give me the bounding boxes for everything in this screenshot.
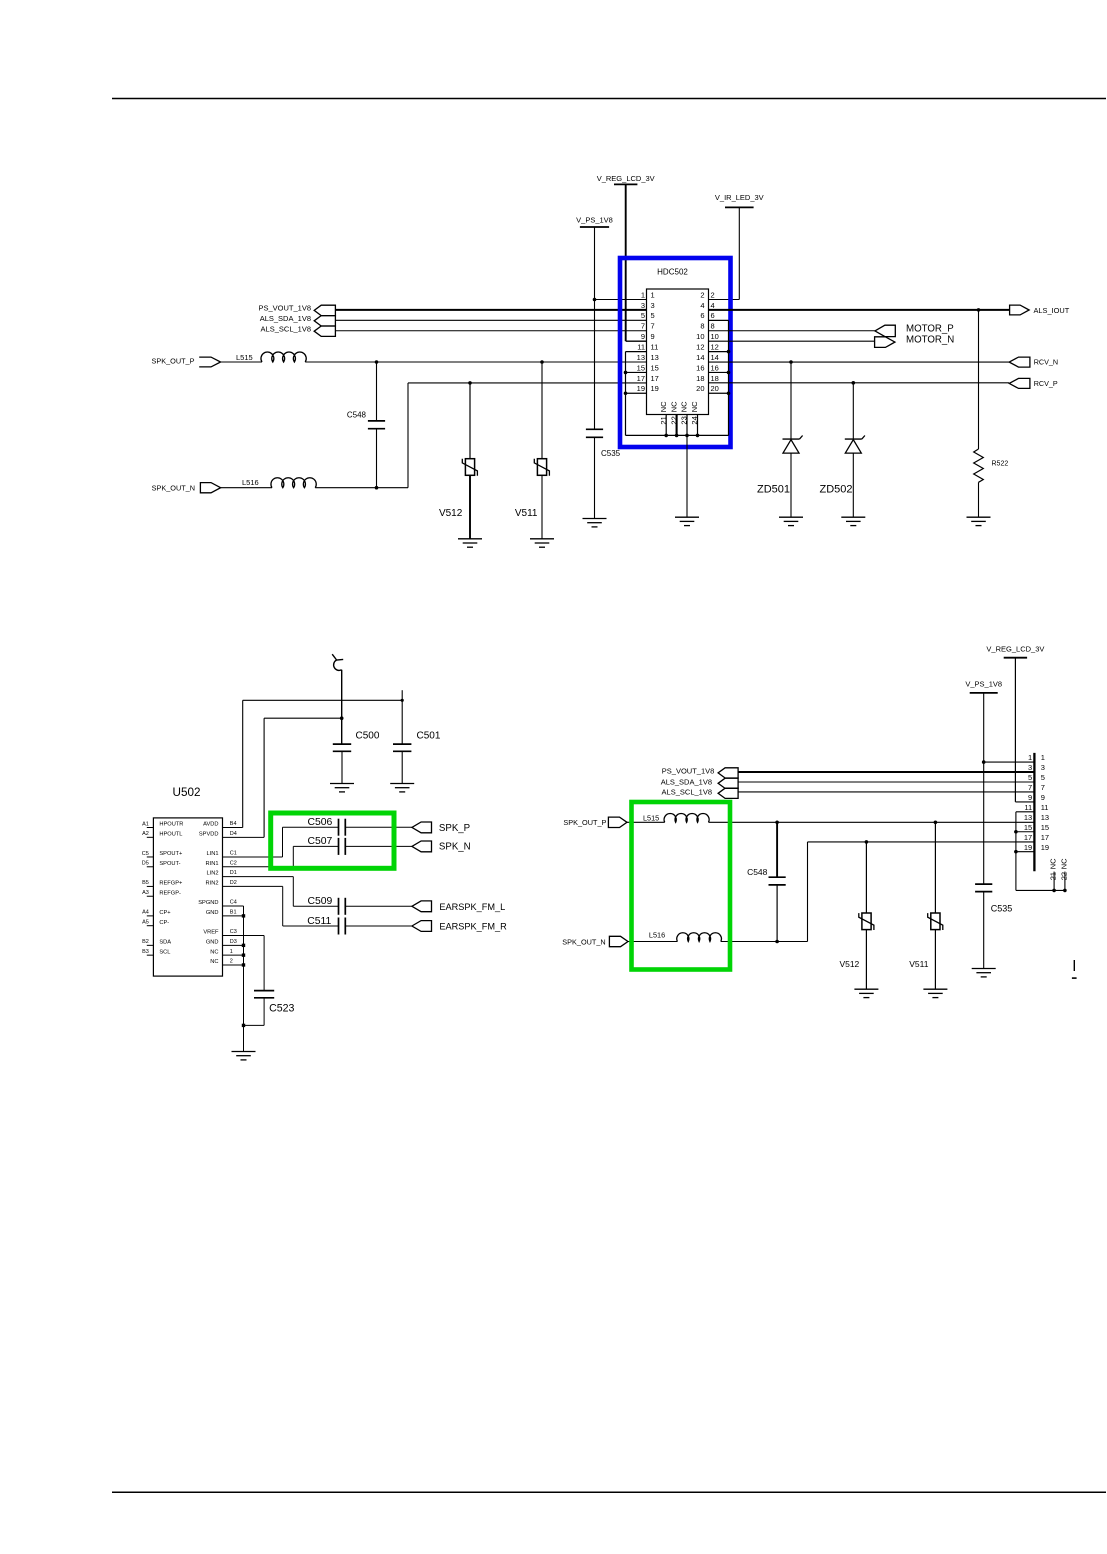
svg-text:4: 4: [700, 301, 704, 310]
svg-text:8: 8: [700, 322, 704, 331]
svg-text:C548: C548: [347, 410, 367, 419]
svg-text:1: 1: [1028, 753, 1032, 762]
svg-text:SPK_P: SPK_P: [439, 823, 470, 834]
svg-text:B1: B1: [230, 909, 237, 915]
svg-text:5: 5: [1041, 773, 1045, 782]
svg-text:18: 18: [696, 374, 704, 383]
svg-text:REFGP+: REFGP+: [159, 881, 183, 887]
svg-text:13: 13: [1041, 813, 1049, 822]
svg-text:D3: D3: [230, 939, 237, 945]
svg-text:1: 1: [641, 290, 645, 299]
svg-text:A1: A1: [142, 821, 149, 827]
svg-text:9: 9: [641, 332, 645, 341]
svg-text:7: 7: [651, 322, 655, 331]
svg-text:ZD502: ZD502: [819, 484, 852, 496]
svg-text:L515: L515: [236, 353, 253, 362]
svg-text:ALS_SCL_1V8: ALS_SCL_1V8: [662, 787, 712, 796]
svg-text:SPGND: SPGND: [198, 900, 218, 906]
svg-text:V_REG_LCD_3V: V_REG_LCD_3V: [986, 644, 1044, 653]
svg-text:11: 11: [651, 343, 659, 352]
svg-text:NC: NC: [210, 949, 218, 955]
svg-text:NC: NC: [1059, 858, 1068, 869]
svg-text:SPOUT-: SPOUT-: [159, 861, 180, 867]
svg-text:9: 9: [651, 332, 655, 341]
svg-text:10: 10: [711, 332, 719, 341]
svg-text:16: 16: [711, 363, 719, 372]
svg-text:NC: NC: [1049, 858, 1058, 869]
svg-text:B4: B4: [230, 821, 237, 827]
svg-text:4: 4: [711, 301, 715, 310]
svg-text:NC: NC: [659, 401, 668, 412]
svg-text:16: 16: [696, 363, 704, 372]
svg-text:RCV_P: RCV_P: [1034, 379, 1058, 388]
svg-text:9: 9: [1028, 793, 1032, 802]
svg-text:2: 2: [700, 290, 704, 299]
svg-text:2: 2: [711, 290, 715, 299]
svg-text:A3: A3: [142, 890, 149, 896]
svg-text:3: 3: [651, 301, 655, 310]
svg-text:13: 13: [637, 353, 645, 362]
svg-text:ALS_SDA_1V8: ALS_SDA_1V8: [661, 777, 712, 786]
svg-text:17: 17: [1041, 833, 1049, 842]
svg-text:D4: D4: [230, 831, 237, 837]
svg-text:HPOUTR: HPOUTR: [159, 822, 183, 828]
svg-text:21: 21: [1049, 872, 1058, 880]
svg-text:13: 13: [1024, 813, 1032, 822]
svg-text:V_PS_1V8: V_PS_1V8: [965, 680, 1002, 689]
svg-text:9: 9: [1041, 793, 1045, 802]
svg-text:V511: V511: [515, 508, 538, 519]
svg-text:23: 23: [680, 416, 689, 424]
svg-text:ALS_SCL_1V8: ALS_SCL_1V8: [261, 324, 311, 333]
svg-text:17: 17: [1024, 833, 1032, 842]
svg-text:SPK_N: SPK_N: [439, 841, 471, 852]
svg-text:LIN1: LIN1: [206, 851, 218, 857]
svg-text:SPK_OUT_N: SPK_OUT_N: [562, 937, 605, 946]
svg-text:C535: C535: [991, 904, 1013, 914]
svg-text:12: 12: [711, 343, 719, 352]
svg-text:B5: B5: [142, 880, 149, 886]
svg-text:C548: C548: [747, 867, 768, 877]
svg-text:R522: R522: [992, 460, 1009, 467]
svg-text:22: 22: [669, 416, 678, 424]
svg-text:SPK_OUT_N: SPK_OUT_N: [152, 483, 195, 492]
svg-text:12: 12: [696, 343, 704, 352]
svg-text:MOTOR_P: MOTOR_P: [906, 324, 954, 335]
svg-text:ALS_IOUT: ALS_IOUT: [1034, 306, 1070, 315]
svg-text:REFGP-: REFGP-: [159, 890, 181, 896]
svg-text:10: 10: [696, 332, 704, 341]
svg-text:V_REG_LCD_3V: V_REG_LCD_3V: [597, 174, 655, 183]
svg-text:7: 7: [641, 322, 645, 331]
svg-text:NC: NC: [680, 401, 689, 412]
svg-text:19: 19: [651, 384, 659, 393]
svg-text:15: 15: [651, 363, 659, 372]
svg-text:15: 15: [637, 363, 645, 372]
svg-text:GND: GND: [206, 910, 219, 916]
svg-text:3: 3: [641, 301, 645, 310]
svg-text:5: 5: [651, 311, 655, 320]
svg-text:SCL: SCL: [159, 949, 170, 955]
svg-text:A4: A4: [142, 910, 149, 916]
svg-text:HDC502: HDC502: [657, 267, 688, 276]
svg-text:V_PS_1V8: V_PS_1V8: [576, 216, 613, 225]
svg-text:22: 22: [1059, 872, 1068, 880]
svg-text:3: 3: [1041, 763, 1045, 772]
svg-text:D5: D5: [142, 861, 149, 867]
svg-text:14: 14: [711, 353, 719, 362]
svg-text:MOTOR_N: MOTOR_N: [906, 335, 954, 346]
svg-text:VREF: VREF: [203, 930, 219, 936]
svg-text:1: 1: [230, 949, 233, 955]
svg-text:RIN1: RIN1: [206, 861, 219, 867]
svg-text:C3: C3: [230, 929, 237, 935]
svg-text:U502: U502: [173, 786, 201, 799]
svg-text:D2: D2: [230, 880, 237, 886]
svg-text:1: 1: [1041, 753, 1045, 762]
svg-text:SPOUT+: SPOUT+: [159, 851, 183, 857]
svg-text:11: 11: [637, 343, 645, 352]
svg-text:AVDD: AVDD: [203, 822, 218, 828]
svg-text:C501: C501: [417, 730, 441, 741]
svg-text:V512: V512: [839, 959, 859, 969]
svg-text:B3: B3: [142, 949, 149, 955]
svg-text:C2: C2: [230, 860, 237, 866]
svg-text:SPK_OUT_P: SPK_OUT_P: [152, 357, 195, 366]
svg-text:RCV_N: RCV_N: [1034, 358, 1058, 367]
svg-text:20: 20: [711, 384, 719, 393]
svg-text:C4: C4: [230, 900, 237, 906]
svg-text:5: 5: [641, 311, 645, 320]
svg-text:1: 1: [651, 290, 655, 299]
svg-text:7: 7: [1041, 783, 1045, 792]
svg-text:A5: A5: [142, 920, 149, 926]
svg-text:C1: C1: [230, 851, 237, 857]
svg-text:PS_VOUT_1V8: PS_VOUT_1V8: [662, 766, 715, 775]
svg-text:L516: L516: [649, 931, 665, 940]
svg-text:L515: L515: [643, 813, 659, 822]
svg-text:19: 19: [1024, 843, 1032, 852]
svg-text:17: 17: [651, 374, 659, 383]
svg-text:24: 24: [690, 416, 699, 424]
svg-text:3: 3: [1028, 763, 1032, 772]
svg-text:A2: A2: [142, 831, 149, 837]
svg-text:EARSPK_FM_R: EARSPK_FM_R: [439, 922, 507, 932]
svg-text:14: 14: [696, 353, 704, 362]
svg-text:CP+: CP+: [159, 910, 171, 916]
svg-text:RIN2: RIN2: [206, 881, 219, 887]
svg-text:15: 15: [1041, 823, 1049, 832]
svg-text:CP-: CP-: [159, 920, 169, 926]
svg-text:C5: C5: [142, 851, 149, 857]
svg-text:13: 13: [651, 353, 659, 362]
svg-text:EARSPK_FM_L: EARSPK_FM_L: [439, 902, 505, 912]
svg-text:17: 17: [637, 374, 645, 383]
svg-text:7: 7: [1028, 783, 1032, 792]
svg-text:19: 19: [637, 384, 645, 393]
svg-text:D1: D1: [230, 870, 237, 876]
svg-text:C507: C507: [307, 836, 332, 847]
svg-text:B2: B2: [142, 939, 149, 945]
svg-text:V512: V512: [439, 508, 463, 519]
svg-text:5: 5: [1028, 773, 1032, 782]
svg-text:2: 2: [230, 959, 233, 965]
svg-text:L516: L516: [242, 478, 259, 487]
svg-text:NC: NC: [690, 401, 699, 412]
svg-text:ALS_SDA_1V8: ALS_SDA_1V8: [260, 314, 311, 323]
svg-text:18: 18: [711, 374, 719, 383]
svg-text:19: 19: [1041, 843, 1049, 852]
svg-text:NC: NC: [669, 401, 678, 412]
svg-text:ZD501: ZD501: [757, 484, 790, 496]
svg-text:C523: C523: [269, 1002, 294, 1014]
svg-text:SDA: SDA: [159, 939, 171, 945]
svg-text:C500: C500: [356, 730, 380, 741]
svg-text:11: 11: [1041, 803, 1049, 812]
svg-text:11: 11: [1024, 803, 1032, 812]
svg-text:V511: V511: [909, 959, 928, 969]
svg-text:NC: NC: [210, 959, 218, 965]
svg-text:8: 8: [711, 322, 715, 331]
svg-text:LIN2: LIN2: [206, 871, 218, 877]
svg-text:GND: GND: [206, 939, 219, 945]
svg-text:SPVDD: SPVDD: [199, 831, 219, 837]
svg-text:V_IR_LED_3V: V_IR_LED_3V: [715, 193, 764, 202]
svg-text:21: 21: [659, 416, 668, 424]
svg-text:C509: C509: [307, 896, 332, 907]
svg-text:C535: C535: [601, 449, 621, 458]
svg-text:C506: C506: [307, 817, 332, 828]
svg-text:PS_VOUT_1V8: PS_VOUT_1V8: [258, 303, 311, 312]
svg-text:6: 6: [711, 311, 715, 320]
svg-text:C511: C511: [307, 916, 331, 927]
svg-text:15: 15: [1024, 823, 1032, 832]
svg-text:HPOUTL: HPOUTL: [159, 831, 182, 837]
svg-text:6: 6: [700, 311, 704, 320]
svg-text:20: 20: [696, 384, 704, 393]
svg-text:SPK_OUT_P: SPK_OUT_P: [563, 818, 606, 827]
